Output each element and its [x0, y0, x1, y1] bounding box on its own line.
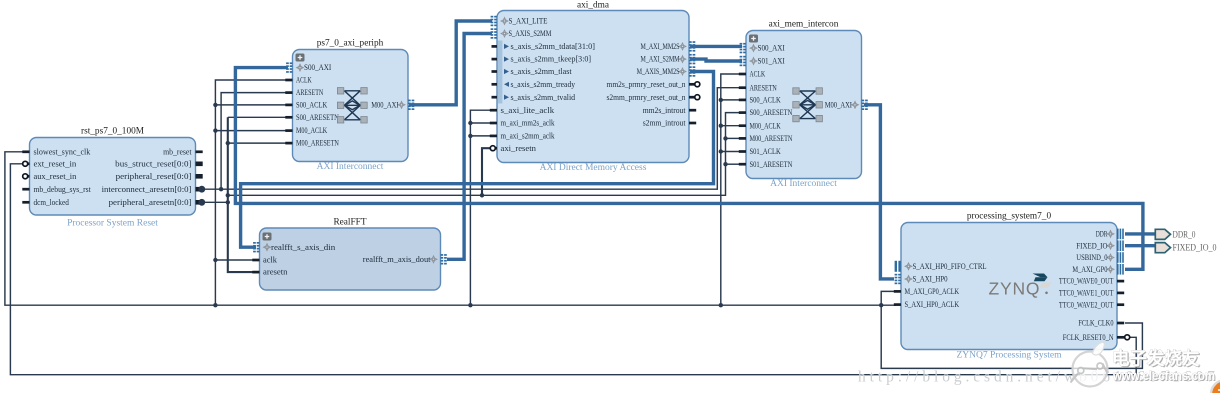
external port DDR_0 [1155, 229, 1170, 239]
svg-text:M_AXI_S2MM: M_AXI_S2MM [641, 55, 680, 64]
svg-text:S00_ARESETN: S00_ARESETN [296, 113, 339, 122]
pin mm2s_introut [689, 109, 696, 112]
svg-text:aresetn: aresetn [263, 268, 288, 277]
input marker ext_reset_in [23, 161, 28, 166]
svg-text:m_axi_s2mm_aclk: m_axi_s2mm_aclk [501, 132, 555, 141]
junction dot interconnect_aresetn output [198, 186, 205, 193]
svg-text:aux_reset_in: aux_reset_in [34, 172, 77, 181]
svg-text:AXI Interconnect: AXI Interconnect [770, 179, 837, 189]
svg-text:M00_AXI: M00_AXI [825, 100, 853, 109]
pin interconnect_aresetn[0:0] [196, 187, 203, 192]
svg-text:axi_resetn: axi_resetn [501, 144, 536, 153]
pin TTC0_WAVE0_OUT [1117, 280, 1124, 283]
wire clock branch S00_ACLK [721, 99, 740, 101]
svg-text:FIXED_IO_0: FIXED_IO_0 [1173, 243, 1217, 253]
pin M00_ARESETN [739, 137, 746, 140]
svg-text:M00_ACLK: M00_ACLK [750, 121, 781, 130]
pin s_axis_s2mm_tdata[31:0] [492, 45, 498, 48]
wire peripheral_aresetn riser to axi_dma axi_resetn [482, 148, 491, 195]
svg-text:S_AXI_HP0_FIFO_CTRL: S_AXI_HP0_FIFO_CTRL [913, 262, 987, 271]
svg-text:Processor System Reset: Processor System Reset [67, 219, 158, 229]
svg-text:S_AXI_HP0: S_AXI_HP0 [913, 275, 948, 284]
pin mb_debug_sys_rst [22, 188, 29, 191]
pin M_AXI_GP0 [1117, 264, 1119, 275]
svg-text:DDR_0: DDR_0 [1173, 229, 1196, 239]
wire clock riser x=215.4 to ps7_0_axi_periph ACLK [215, 80, 286, 305]
interface pin S_AXI_LITE [491, 16, 494, 18]
wire reset net: ext_reset_in down left edge along bottom y=374.7 up to FCLK_RESET0_N [10, 164, 1136, 375]
interface pin S00_AXI [286, 62, 289, 64]
pin peripheral_reset[0:0] [196, 174, 203, 179]
input marker aux_reset_in [23, 174, 28, 179]
bus wire M_AXI_GP0 loop: PS7 M_AXI_GP0 up along y=203.4 to ps7_0_axi_periph S00_AXI [235, 68, 1143, 270]
wire peripheral_aresetn branch mem S01_ARESETN [726, 163, 741, 165]
external port FIXED_IO_0 [1155, 243, 1170, 253]
bus wire M_AXI_S2MM to mem_intercon S01_AXI [690, 59, 742, 61]
block ps7_0_axi_periph AXI Interconnect [293, 50, 409, 162]
svg-text:M00_ARESETN: M00_ARESETN [750, 134, 793, 143]
svg-text:S00_AXI: S00_AXI [304, 63, 332, 72]
pin TTC0_WAVE2_OUT [1117, 303, 1124, 306]
svg-text:FIXED_IO: FIXED_IO [1076, 241, 1107, 250]
pin dcm_locked [22, 201, 29, 204]
svg-text:axi_mem_intercon: axi_mem_intercon [769, 20, 839, 30]
wire peripheral_aresetn branch ps7_0_axi_periph S00_ARESETN [228, 116, 286, 118]
interface pin S00_AXI [740, 43, 743, 45]
wire peripheral_aresetn channel line y=195.3 to axi_mem_intercon S00_ARESETN riser [228, 113, 740, 196]
svg-text:TTC0_WAVE2_OUT: TTC0_WAVE2_OUT [1059, 300, 1114, 309]
block rst_ps7_0_100M Processor System Reset [30, 138, 196, 216]
bus wire mem_intercon M00_AXI to PS7 S_AXI_HP0 [864, 105, 894, 279]
pin s_axis_s2mm_tready [492, 83, 498, 86]
svg-text:RealFFT: RealFFT [333, 218, 366, 228]
pin bus_struct_reset[0:0] [196, 162, 203, 167]
pin peripheral_aresetn[0:0] [196, 200, 203, 205]
svg-text:s_axis_s2mm_tdata[31:0]: s_axis_s2mm_tdata[31:0] [511, 42, 596, 51]
pin mm2s_prmry_reset_out_n [689, 83, 696, 86]
svg-text:AXI Direct Memory Access: AXI Direct Memory Access [540, 163, 647, 173]
junction dots on clock riser x=215.4 [213, 303, 217, 307]
svg-text:rst_ps7_0_100M: rst_ps7_0_100M [81, 127, 144, 137]
svg-text:dcm_locked: dcm_locked [34, 198, 69, 207]
svg-text:M00_ARESETN: M00_ARESETN [296, 139, 339, 148]
pin mb_reset [196, 150, 203, 153]
pin m_axi_s2mm_aclk [490, 135, 497, 138]
pin aux_reset_in [22, 175, 29, 178]
interface pin S_AXI_HP0 [895, 274, 898, 276]
pin M_AXI_S2MM [689, 54, 692, 56]
wire peripheral_aresetn branch mem M00_ARESETN [726, 137, 741, 139]
pin m_axi_mm2s_aclk [490, 122, 497, 125]
junction dots on clock riser x=718.7 [719, 303, 723, 307]
svg-text:TTC0_WAVE0_OUT: TTC0_WAVE0_OUT [1059, 277, 1114, 286]
pin s_axis_s2mm_tlast [492, 70, 498, 73]
pin s_axis_s2mm_tkeep[3:0] [492, 58, 498, 61]
expanded interface band [498, 41, 503, 104]
pin FIXED_IO [1117, 240, 1119, 251]
bus wire M_AXIS_MM2S: axi_dma to RealFFT din along y=183.7 [241, 72, 714, 248]
wire peripheral_aresetn branch M00_ARESETN [228, 142, 286, 144]
svg-text:s_axis_s2mm_tready: s_axis_s2mm_tready [511, 80, 576, 89]
bus wire M_AXI_MM2S to mem_intercon S00_AXI [690, 45, 742, 48]
svg-text:ACLK: ACLK [296, 76, 312, 85]
interface pin S_AXIS_S2MM [491, 28, 494, 30]
expand button + [749, 35, 758, 43]
interface pin S_AXI_HP0_FIFO_CTRL [895, 261, 897, 272]
block processing_system7_0 ZYNQ7 Processing System [901, 223, 1117, 350]
pin s2mm_prmry_reset_out_n [689, 96, 696, 99]
svg-text:mb_debug_sys_rst: mb_debug_sys_rst [34, 185, 92, 194]
svg-text:S01_AXI: S01_AXI [758, 57, 786, 66]
interface pin M00_AXI output [408, 100, 411, 102]
wire clock net FCLK_CLK0 trunk: slowest_sync_clk down left edge, along y=305, to S_AXI_HP0_ACLK [5, 152, 896, 305]
expand button + [296, 54, 305, 62]
svg-text:ARESETN: ARESETN [750, 83, 777, 92]
pin S00_ARESETN [739, 111, 746, 114]
watermark elecfans logo circle [1071, 342, 1108, 386]
bus wire DDR to external port DDR_0 [1125, 232, 1155, 235]
svg-text:FCLK_RESET0_N: FCLK_RESET0_N [1063, 333, 1114, 342]
wire peripheral_aresetn riser x=227.8 S00_ARESETN down to RealFFT aresetn [228, 117, 253, 272]
pin s2mm_introut [689, 122, 696, 125]
junction dot clock at x=881.2 on trunk [879, 303, 883, 307]
wire clock branch m_axi_mm2s_aclk [470, 122, 490, 124]
interface pin S01_AXI [740, 56, 743, 58]
bus wire FIXED_IO to external port FIXED_IO_0 [1125, 244, 1155, 247]
svg-text:s_axis_s2mm_tvalid: s_axis_s2mm_tvalid [511, 93, 576, 102]
svg-text:S00_ACLK: S00_ACLK [750, 96, 781, 105]
svg-text:S01_ARESETN: S01_ARESETN [750, 160, 793, 169]
svg-text:bus_struct_reset[0:0]: bus_struct_reset[0:0] [115, 159, 192, 168]
svg-text:mm2s_introut: mm2s_introut [643, 106, 687, 115]
pin USBIND_0 [1117, 252, 1119, 263]
pin DDR [1117, 229, 1119, 240]
pin aclk [252, 259, 259, 262]
svg-text:S00_AXI: S00_AXI [758, 44, 786, 53]
svg-text:mb_reset: mb_reset [163, 147, 192, 156]
svg-text:DDR: DDR [1096, 230, 1108, 239]
svg-text:M_AXIS_MM2S: M_AXIS_MM2S [637, 67, 680, 76]
svg-text:S_AXI_LITE: S_AXI_LITE [509, 17, 548, 26]
pin M_AXI_MM2S [689, 41, 692, 43]
orange badge corner [1211, 380, 1220, 393]
svg-text:peripheral_aresetn[0:0]: peripheral_aresetn[0:0] [109, 198, 192, 207]
input marker axi_resetn [490, 146, 495, 151]
svg-text:M_AXI_GP0: M_AXI_GP0 [1072, 265, 1107, 274]
svg-text:s2mm_prmry_reset_out_n: s2mm_prmry_reset_out_n [607, 93, 686, 102]
svg-text:processing_system7_0: processing_system7_0 [967, 212, 1052, 222]
pin S01_ARESETN [739, 163, 746, 166]
svg-text:FCLK_CLK0: FCLK_CLK0 [1078, 319, 1113, 328]
pin FCLK_RESET0_N [1117, 336, 1124, 339]
wire clock branch m_axi_s2mm_aclk [470, 135, 490, 137]
svg-text:ext_reset_in: ext_reset_in [34, 159, 77, 168]
junction dot peripheral_aresetn output [198, 199, 205, 206]
bus wire S_AXI_LITE: ps7_0_axi_periph M00_AXI to axi_dma S_AXI_LITE [409, 21, 492, 105]
block RealFFT [260, 228, 441, 290]
wire clock riser x=470.4 to axi_dma s_axi_lite_aclk [470, 110, 490, 305]
svg-text:ZYNQ7 Processing System: ZYNQ7 Processing System [956, 351, 1062, 361]
pin M_AXIS_MM2S [689, 66, 692, 68]
svg-text:S_AXIS_S2MM: S_AXIS_S2MM [509, 29, 552, 38]
svg-text:M_AXI_GP0_ACLK: M_AXI_GP0_ACLK [905, 287, 960, 296]
pin ACLK [739, 73, 746, 76]
wire clock branch M00_ACLK [721, 125, 740, 127]
svg-text:M00_AXI: M00_AXI [371, 100, 399, 109]
svg-text:s2mm_introut: s2mm_introut [643, 119, 687, 128]
svg-text:S01_ACLK: S01_ACLK [750, 147, 781, 156]
interface pin M00_AXI output [862, 100, 865, 102]
svg-text:ps7_0_axi_periph: ps7_0_axi_periph [317, 39, 384, 49]
svg-text:www.elecfans.com: www.elecfans.com [1112, 369, 1215, 383]
svg-text:aclk: aclk [263, 256, 277, 265]
wire interconnect_aresetn: rst output to axi_mem_intercon ARESETN [201, 88, 740, 190]
svg-text:ACLK: ACLK [750, 70, 766, 79]
pin aresetn [252, 271, 259, 274]
pin TTC0_WAVE1_OUT [1117, 292, 1124, 295]
pin M00_ARESETN [285, 142, 292, 145]
svg-text:电子发烧友: 电子发烧友 [1112, 349, 1200, 369]
svg-text:M00_ACLK: M00_ACLK [296, 126, 327, 135]
crossbar icon [799, 91, 816, 119]
wire clock branch to RealFFT aclk [215, 259, 253, 261]
expand button + [263, 233, 272, 241]
pin S00_ARESETN [285, 116, 292, 119]
block axi_mem_intercon AXI Interconnect [746, 31, 862, 179]
svg-text:realfft_s_axis_din: realfft_s_axis_din [271, 243, 335, 252]
pin s_axi_lite_aclk [490, 109, 497, 112]
svg-text:ZYNQ: ZYNQ [989, 279, 1041, 299]
pin ARESETN [285, 91, 292, 94]
svg-text:ARESETN: ARESETN [296, 88, 323, 97]
svg-text:interconnect_aresetn[0:0]: interconnect_aresetn[0:0] [102, 185, 192, 194]
pin S00_ACLK [739, 99, 746, 102]
svg-text:slowest_sync_clk: slowest_sync_clk [34, 147, 91, 156]
wire clock branch to M00_ACLK [215, 130, 286, 132]
svg-text:m_axi_mm2s_aclk: m_axi_mm2s_aclk [501, 119, 555, 128]
wire clock riser x=718.7 to axi_mem_intercon ACLK [721, 74, 740, 305]
bus wire RealFFT dout to axi_dma S_AXIS_S2MM [447, 34, 492, 260]
svg-text:AXI Interconnect: AXI Interconnect [317, 162, 384, 172]
wire interconnect_aresetn riser to ps7_0_axi_periph ARESETN [221, 93, 286, 190]
pin s_axis_s2mm_tvalid [492, 96, 498, 99]
interface pin realfft_m_axis_dout output [441, 254, 444, 256]
svg-text:TTC0_WAVE1_OUT: TTC0_WAVE1_OUT [1059, 289, 1114, 298]
pin M_AXI_GP0_ACLK [894, 290, 901, 293]
pin ACLK [285, 79, 292, 82]
wire peripheral_aresetn: rst output stub line [201, 201, 228, 203]
pin ext_reset_in [22, 162, 29, 165]
svg-text:S_AXI_HP0_ACLK: S_AXI_HP0_ACLK [905, 300, 960, 309]
wire clock branch S01_ACLK [721, 151, 740, 153]
svg-text:S00_ACLK: S00_ACLK [296, 101, 327, 110]
pin S00_ACLK [285, 104, 292, 107]
svg-text:M_AXI_MM2S: M_AXI_MM2S [641, 42, 680, 51]
svg-text:USBIND_0: USBIND_0 [1076, 253, 1107, 262]
wire clock branch to S00_ACLK [215, 104, 286, 106]
svg-text:s_axi_lite_aclk: s_axi_lite_aclk [501, 106, 555, 115]
svg-text:peripheral_reset[0:0]: peripheral_reset[0:0] [116, 172, 192, 181]
svg-text:realfft_m_axis_dout: realfft_m_axis_dout [363, 255, 432, 264]
pin axi_resetn [490, 147, 497, 150]
svg-text:s_axis_s2mm_tlast: s_axis_s2mm_tlast [511, 67, 573, 76]
interface pin realfft_s_axis_din [253, 242, 256, 244]
pin ARESETN [739, 86, 746, 89]
svg-text:s_axis_s2mm_tkeep[3:0]: s_axis_s2mm_tkeep[3:0] [511, 55, 592, 64]
junction dots on clock riser x=470.4 [468, 303, 472, 307]
crossbar icon [344, 91, 361, 120]
pin S_AXI_HP0_ACLK [894, 303, 901, 306]
pin M00_ACLK [285, 129, 292, 132]
pin S01_ACLK [739, 150, 746, 153]
svg-text:S00_ARESETN: S00_ARESETN [750, 108, 793, 117]
svg-text:mm2s_prmry_reset_out_n: mm2s_prmry_reset_out_n [607, 80, 686, 89]
block axi_dma AXI Direct Memory Access [497, 11, 689, 163]
pin M00_ACLK [739, 124, 746, 127]
pin FCLK_CLK0 [1117, 322, 1124, 325]
pin slowest_sync_clk [22, 150, 29, 153]
wire clock source: M_AXI_GP0_ACLK down, along y=368 to FCLK_CLK0 [881, 291, 1142, 368]
svg-text:axi_dma: axi_dma [577, 1, 609, 11]
